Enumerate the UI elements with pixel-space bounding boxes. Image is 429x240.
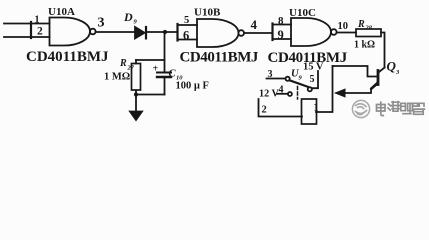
transistor Q3 base wire (333, 66, 378, 77)
svg-text:1: 1 (35, 15, 40, 26)
svg-text:U10A: U10A (48, 6, 75, 18)
wire pin4 U10B to U10C (244, 32, 273, 34)
svg-text:Q: Q (387, 59, 397, 74)
transistor Q3 emitter lead (337, 84, 379, 94)
svg-text:4: 4 (279, 85, 284, 96)
svg-text:3: 3 (268, 69, 273, 80)
svg-text:9: 9 (134, 19, 138, 26)
svg-text:R: R (357, 19, 365, 30)
svg-text:15 V: 15 V (303, 62, 324, 73)
NAND gate U10A (50, 18, 91, 46)
transistor Q3 collector lead (379, 68, 385, 73)
svg-text:1 kΩ: 1 kΩ (354, 40, 375, 51)
diode D9 cathode bar (145, 27, 147, 38)
U10A input tie bar (30, 22, 32, 38)
resistor R27 lead top (135, 60, 137, 64)
wire junction down to RC (164, 32, 166, 73)
resistor R27 body (132, 64, 141, 91)
U10B input tie bar (176, 24, 178, 41)
relay blade contact (290, 80, 308, 87)
relay pin 4 wire (277, 93, 288, 95)
svg-text:100 µ F: 100 µ F (176, 81, 209, 92)
svg-text:5: 5 (310, 74, 315, 85)
svg-text:9: 9 (278, 28, 284, 42)
svg-text:1 MΩ: 1 MΩ (104, 72, 130, 83)
svg-text:3: 3 (98, 16, 105, 31)
relay coil U9 body (302, 99, 317, 124)
svg-text:10: 10 (338, 21, 349, 32)
NAND gate U10B (197, 19, 239, 47)
relay pin 5 terminal (308, 87, 312, 91)
U10A output bubble (90, 29, 96, 35)
svg-text:2: 2 (37, 26, 43, 38)
wire Q3 emitter to relay coil (316, 66, 333, 112)
svg-text:6: 6 (183, 29, 189, 43)
relay pin 4 terminal (288, 92, 292, 96)
NAND gate U10C (291, 18, 331, 46)
capacitor C10 bottom lead (164, 77, 166, 95)
svg-text:4: 4 (251, 17, 258, 32)
RC bottom rail wire (136, 94, 165, 96)
wire diode to U10B (147, 31, 178, 33)
transistor Q3 base bar (377, 71, 380, 85)
svg-text:8: 8 (278, 15, 284, 27)
diode D9 (135, 27, 145, 38)
capacitor C10 bottom plate (157, 76, 171, 78)
ground symbol (130, 112, 142, 121)
RC top rail wire (136, 59, 165, 61)
svg-text:D: D (123, 10, 133, 24)
wire pin3 to diode (96, 31, 135, 33)
svg-text:1: 1 (314, 103, 319, 114)
ground wire (135, 95, 137, 112)
junction node dot (163, 30, 167, 34)
resistor R27 lead bottom (135, 91, 137, 95)
wire U10A input stub pin2 (4, 36, 50, 38)
svg-text:R: R (119, 58, 127, 69)
svg-text:9: 9 (299, 75, 303, 82)
svg-text:CD4011BMJ: CD4011BMJ (26, 49, 109, 65)
transistor Q3 emitter arrow (334, 88, 346, 97)
relay actuator dashed link (297, 87, 299, 100)
watermark text dianyuan lianmeng (377, 102, 425, 116)
U10B output bubble (238, 30, 244, 36)
wire 15V to pin 5 (312, 71, 318, 88)
svg-text:28: 28 (365, 25, 373, 32)
wire U10A input stub pin1 (4, 23, 50, 25)
resistor R28 body (356, 29, 381, 37)
svg-text:3: 3 (395, 69, 400, 76)
svg-text:CD4011BMJ: CD4011BMJ (180, 50, 259, 66)
svg-text:2: 2 (262, 105, 267, 116)
capacitor C10 top plate (157, 72, 171, 74)
U10C output bubble (331, 29, 337, 35)
svg-text:27: 27 (127, 65, 135, 72)
U10C input tie bar (271, 24, 273, 41)
svg-text:5: 5 (184, 15, 189, 26)
wire 12V down to coil pin2 (259, 99, 303, 117)
svg-text:U10C: U10C (289, 7, 316, 19)
wire U10C input pin8 (273, 24, 292, 26)
wire R28 to Q3 collector (381, 33, 385, 68)
wire U10B input pin6 (178, 39, 198, 41)
relay pin 3 terminal (286, 77, 290, 81)
relay U9 contact pin3 wire (267, 78, 286, 80)
wire U10C input pin9 (273, 38, 292, 40)
wire U10B input pin5 (178, 24, 198, 26)
ground junction dot (134, 92, 138, 96)
svg-text:U10B: U10B (194, 7, 221, 19)
svg-text:12 V: 12 V (259, 89, 280, 100)
watermark logo circle (352, 100, 369, 117)
wire pin10 to R28 (337, 32, 356, 34)
